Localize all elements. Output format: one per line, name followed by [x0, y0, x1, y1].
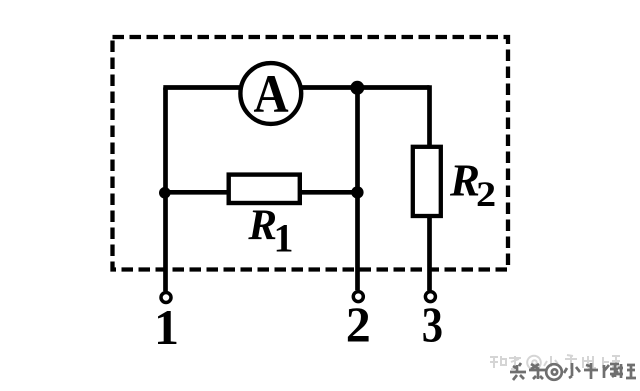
terminal 2 circle	[353, 292, 363, 302]
watermark (dark gray, embossed): simulated CJK glyphs 头条@小牛物理	[510, 363, 636, 380]
junction node dot: top (ammeter right / node 2 branch)	[350, 81, 364, 95]
dashed enclosure border	[113, 37, 509, 270]
resistor R1 body	[229, 175, 300, 203]
wire: right vertical from top node down to terminal 2	[355, 88, 360, 291]
wire: middle horizontal through R1 between left node and right node	[166, 190, 358, 195]
svg-text:1: 1	[154, 299, 179, 355]
svg-text:3: 3	[422, 298, 443, 353]
wire: top horizontal from left corner through ammeter to node 2 branch	[163, 85, 357, 90]
terminal 3 circle	[425, 292, 435, 302]
terminal 1 circle	[161, 293, 171, 303]
wire: R2 branch vertical from corner down to terminal 3	[427, 85, 432, 290]
wire: top-right horizontal from top node to R2 branch corner	[358, 85, 430, 90]
wire: left vertical from top-left corner down to terminal 1	[163, 88, 168, 292]
svg-text:2: 2	[346, 296, 371, 352]
svg-text:2: 2	[476, 175, 496, 215]
junction node dot: left (R1 left / wire 1)	[159, 187, 171, 199]
resistor R1 label	[247, 202, 293, 261]
junction node dot: right (R1 right / wire 2)	[351, 186, 363, 198]
svg-text:A: A	[253, 65, 288, 125]
ammeter U1 (circle with letter A)	[240, 63, 301, 125]
svg-text:1: 1	[274, 216, 294, 261]
resistor R2 body	[413, 147, 441, 216]
resistor R2 label	[449, 156, 496, 215]
watermark (light gray): simulated CJK glyphs 知乎@小牛物理	[490, 355, 620, 369]
